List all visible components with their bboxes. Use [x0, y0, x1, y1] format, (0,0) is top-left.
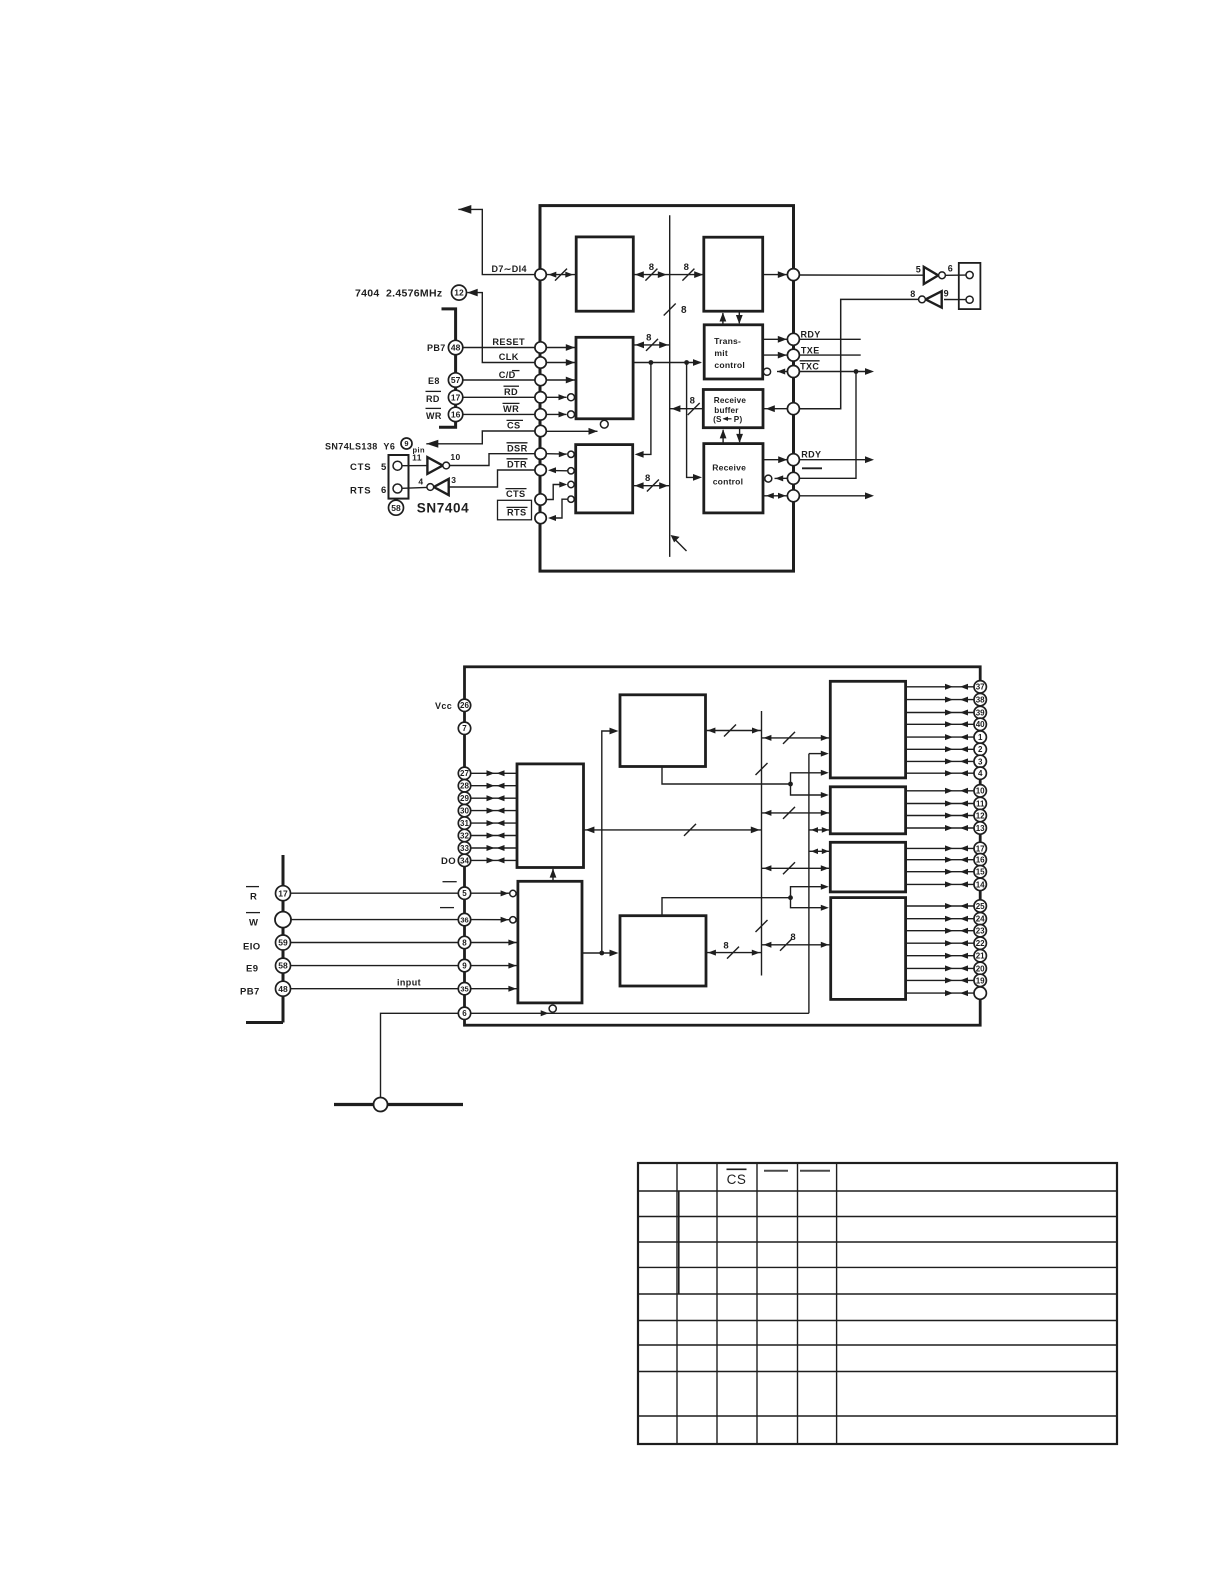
wire RESET into R/W control	[546, 344, 576, 351]
wire: internal bus to transmit buffer	[670, 262, 704, 281]
wire bus1 to register file C	[762, 862, 831, 874]
wire counter branch	[662, 895, 793, 915]
svg-text:22: 22	[976, 939, 985, 948]
svg-text:19: 19	[976, 976, 985, 985]
svg-text:8: 8	[462, 938, 467, 947]
block: timing generator	[620, 695, 706, 767]
wire receive buffer/control up	[720, 429, 727, 443]
svg-text:33: 33	[460, 844, 469, 853]
svg-text:9: 9	[462, 961, 467, 970]
svg-text:40: 40	[976, 720, 985, 729]
svg-text:RESET: RESET	[492, 337, 525, 347]
svg-text:RTS: RTS	[350, 486, 371, 497]
svg-text:8: 8	[649, 262, 655, 273]
pin 8	[458, 936, 470, 948]
block: register file C	[830, 842, 905, 892]
svg-text:input: input	[397, 978, 421, 988]
wire pin5 into control logic	[471, 890, 516, 896]
internal data bus	[669, 215, 671, 557]
node E9 pin 58	[276, 958, 291, 973]
wire C/D into R/W control	[546, 377, 576, 384]
block: data bus buffer	[576, 237, 633, 311]
wire RTS out of modem control	[548, 496, 574, 521]
svg-text:DO: DO	[441, 856, 456, 867]
svg-text:27: 27	[460, 769, 469, 778]
wire timing bus 1	[756, 711, 768, 976]
node 58	[389, 500, 404, 515]
label WR pin	[503, 403, 520, 414]
svg-text:PB7: PB7	[240, 986, 260, 997]
pin CTS	[535, 494, 546, 505]
connector J2 serial	[959, 263, 981, 309]
svg-text:8: 8	[681, 305, 687, 316]
svg-text:25: 25	[976, 902, 985, 911]
svg-text:17: 17	[278, 888, 288, 898]
pin D1 number 28	[458, 780, 517, 792]
wire timing generator output	[706, 725, 762, 737]
node ground junction	[334, 1098, 463, 1112]
wire CS into R/W control	[546, 420, 608, 434]
label RDY	[801, 329, 821, 339]
svg-text:8: 8	[690, 395, 696, 406]
pin D6 number 33	[458, 842, 517, 854]
wire clock branch to modem control	[635, 363, 651, 458]
pin CLK	[535, 357, 546, 368]
svg-text:8: 8	[910, 289, 915, 299]
label CTS pin	[506, 489, 527, 500]
inverter U3b pins 8/9	[910, 288, 949, 307]
svg-text:12: 12	[454, 288, 464, 298]
block: receive buffer (S-P)	[703, 390, 763, 428]
bus width slash 8 on internal bus	[664, 304, 687, 317]
label DO	[441, 856, 456, 867]
svg-text:10: 10	[450, 452, 460, 462]
wire TXC into transmit control	[763, 368, 787, 375]
svg-text:Receive: Receive	[714, 396, 747, 405]
pin WR	[535, 409, 546, 420]
label input	[397, 978, 421, 988]
svg-text:1: 1	[978, 733, 983, 742]
wire CTS into modem control	[546, 481, 574, 499]
wire inverter 6 to connector	[945, 274, 966, 276]
label CS pin	[507, 420, 524, 430]
svg-text:R: R	[250, 892, 257, 903]
label 5	[381, 462, 387, 473]
pin out 21	[906, 950, 987, 962]
wire SYNDET bidirectional	[764, 493, 788, 499]
label TXC	[800, 361, 820, 372]
svg-text:RDY: RDY	[801, 329, 821, 339]
annotation arrow to internal bus	[671, 535, 687, 551]
pin out 37	[906, 681, 987, 693]
svg-text:DTR: DTR	[507, 459, 527, 469]
wire: D bus pin to data bus buffer	[546, 269, 576, 281]
svg-text:SN74LS138 Y6: SN74LS138 Y6	[325, 442, 395, 452]
wire branch to register file A	[791, 770, 829, 784]
pin out 19	[906, 974, 987, 986]
wire PB7 to pin 35	[291, 988, 459, 990]
wire branch to register file C	[791, 884, 829, 898]
label EIO	[243, 941, 261, 952]
pin Vcc 26	[458, 699, 470, 711]
node R pin 17	[276, 886, 291, 901]
wire TxEMPTY	[763, 352, 787, 359]
label overline above pin5	[443, 881, 457, 883]
label RESET	[492, 337, 525, 347]
pin out 24	[906, 913, 987, 925]
svg-text:P): P)	[734, 415, 743, 424]
pin 35	[458, 983, 470, 995]
pin out 25	[906, 900, 987, 912]
wire pin6 clock line	[471, 1005, 809, 1016]
wire bus1 to register file A	[762, 732, 831, 744]
block: register file A	[830, 681, 905, 778]
pin out 11	[906, 797, 987, 809]
block: receive control	[704, 444, 763, 513]
svg-text:DSR: DSR	[507, 443, 528, 453]
svg-text:8: 8	[790, 932, 796, 943]
svg-text:28: 28	[460, 782, 469, 791]
pin TXC	[787, 366, 799, 378]
node EIO pin 59	[276, 935, 291, 950]
wire pin9 into control logic	[471, 963, 518, 969]
label blank overline	[802, 467, 822, 469]
wire pin6 to ground junction	[381, 1013, 459, 1097]
svg-text:SN7404: SN7404	[417, 501, 469, 516]
wire inverter 4 to RTS connector	[402, 486, 427, 489]
pin TxRDY	[787, 333, 799, 345]
svg-text:26: 26	[460, 701, 469, 710]
svg-text:D7∼DI4: D7∼DI4	[492, 264, 527, 274]
label E9	[246, 963, 258, 974]
wire transmit buffer/control down	[736, 311, 743, 324]
pin 5	[458, 887, 470, 899]
pin out 14	[906, 878, 987, 890]
svg-text:32: 32	[460, 831, 469, 840]
svg-text:29: 29	[460, 794, 469, 803]
inverter U3a pins 5/6	[916, 264, 953, 284]
wire receive buffer to internal bus	[670, 395, 704, 415]
svg-text:8: 8	[646, 332, 652, 343]
svg-text:17: 17	[976, 844, 985, 853]
label R external	[246, 887, 259, 903]
svg-text:16: 16	[976, 856, 985, 865]
svg-text:16: 16	[451, 409, 461, 419]
pin out 22	[906, 937, 987, 949]
wire RxC into receive control	[765, 475, 788, 482]
wire bus2 to register file B	[809, 827, 830, 833]
wire: clock to CLK pin	[467, 289, 535, 363]
node clock source pin 12	[452, 285, 467, 300]
inverter U2b pins 4/3	[418, 475, 456, 495]
pin D7~DI4	[535, 269, 546, 280]
pin RESET	[535, 342, 546, 353]
wire bus1 to register file D	[762, 932, 831, 951]
svg-text:24: 24	[976, 915, 985, 924]
wire RxRDY out	[799, 456, 874, 463]
pin RxD	[787, 403, 799, 415]
label RD pin	[504, 386, 520, 397]
svg-text:E9: E9	[246, 963, 258, 974]
svg-text:23: 23	[976, 927, 985, 936]
svg-text:CTS: CTS	[350, 462, 371, 473]
pin D5 number 32	[458, 829, 517, 841]
label 6	[381, 485, 387, 496]
svg-text:control: control	[713, 477, 744, 487]
pin out 2	[906, 743, 987, 755]
svg-text:21: 21	[976, 952, 985, 961]
wire timing bus 2	[809, 751, 829, 1014]
label RTS pin boxed	[498, 500, 532, 520]
label RD external	[426, 391, 442, 404]
label DSR	[507, 443, 528, 454]
wire bus interface to bus1	[584, 824, 762, 836]
block: register file D	[831, 898, 906, 1000]
wire EIO to pin 8	[291, 942, 459, 944]
svg-text:8: 8	[723, 940, 729, 951]
svg-text:14: 14	[976, 880, 985, 889]
wire CLK into R/W control	[546, 359, 576, 366]
wire bus2 to register file C	[809, 849, 830, 855]
pin D2 number 29	[458, 792, 517, 804]
wire pin35 into control logic	[471, 986, 518, 992]
pin out 40	[906, 718, 987, 730]
pin DTR	[535, 464, 546, 475]
wire TXC external	[799, 368, 874, 375]
pin 9	[458, 959, 470, 971]
wire control logic to counter	[582, 950, 619, 957]
block: modem control	[576, 445, 633, 513]
svg-text:3: 3	[451, 475, 456, 485]
pin DSR	[535, 448, 546, 459]
label SN74LS138 Y6	[325, 438, 425, 455]
wire timing generator branch	[662, 767, 793, 787]
svg-text:11: 11	[412, 452, 422, 462]
node W	[275, 912, 291, 928]
svg-text:13: 13	[976, 824, 985, 833]
node RD pin 17	[448, 390, 462, 404]
label PB7	[427, 343, 446, 353]
table: CS truth table grid	[638, 1163, 1117, 1444]
label E8	[428, 376, 440, 386]
label overline above pin36	[440, 907, 454, 909]
inverter U2a pins 11/10	[412, 452, 461, 474]
svg-text:EIO: EIO	[243, 941, 261, 952]
pin out 12	[906, 809, 987, 821]
wire: R/W control to internal bus	[633, 332, 670, 351]
wire transmit buffer/control up	[720, 313, 727, 325]
svg-text:Receive: Receive	[712, 463, 746, 473]
svg-text:5: 5	[381, 462, 387, 473]
wire TxD to inverter 5	[799, 274, 923, 276]
wire: modem control to internal bus	[633, 473, 670, 492]
block: transmit control	[704, 325, 763, 379]
rail: external reset bracket	[439, 309, 456, 427]
svg-text:RD: RD	[426, 394, 440, 404]
label C/D	[499, 370, 520, 380]
svg-text:30: 30	[460, 806, 469, 815]
label Vcc	[435, 701, 452, 711]
label D7~DI4	[492, 264, 527, 274]
pin out 39	[906, 706, 987, 718]
svg-text:6: 6	[462, 1009, 467, 1018]
svg-text:WR: WR	[503, 404, 519, 414]
svg-text:W: W	[249, 918, 258, 929]
label RDY receive	[801, 449, 821, 459]
svg-text:CS: CS	[507, 421, 521, 431]
pin D3 number 30	[458, 804, 517, 816]
svg-text:control: control	[714, 360, 745, 370]
label DTR	[507, 459, 528, 470]
pin 36	[458, 913, 470, 925]
wire WR into R/W control	[546, 411, 574, 418]
wire RxD from inverter 8	[799, 299, 918, 408]
wire DTR out of modem control	[548, 467, 574, 474]
wire connector to inverter 9	[944, 299, 966, 301]
svg-text:59: 59	[278, 938, 288, 948]
wire RxRDY	[764, 456, 788, 463]
pin out 10	[906, 785, 987, 797]
label 7404 2.4576MHz	[355, 288, 442, 300]
pin D4 number 31	[458, 817, 517, 829]
svg-text:WR: WR	[426, 411, 442, 421]
svg-text:8: 8	[684, 262, 690, 273]
svg-text:58: 58	[278, 961, 288, 971]
pin out 20	[906, 962, 987, 974]
label RTS	[350, 486, 371, 497]
label CLK	[499, 352, 519, 362]
svg-text:6: 6	[381, 485, 387, 496]
wire control to timing generator	[599, 728, 618, 956]
svg-text:11: 11	[976, 799, 985, 808]
pin out 3	[906, 755, 987, 767]
block: counter	[620, 916, 706, 986]
label SN7404	[417, 501, 469, 516]
svg-text:PB7: PB7	[427, 343, 446, 353]
svg-text:(S: (S	[713, 415, 722, 424]
svg-text:CS: CS	[727, 1172, 747, 1187]
wire CS from decoder	[426, 431, 535, 448]
label overline header col4	[764, 1170, 788, 1172]
IC U4 peripheral controller body	[465, 667, 981, 1025]
wire receive buffer/control down	[736, 428, 743, 443]
svg-text:39: 39	[976, 708, 985, 717]
wire DSR into modem control	[546, 451, 574, 457]
wire: data bus buffer to internal bus	[633, 262, 669, 281]
wire C/D	[463, 379, 535, 381]
svg-text:RTS: RTS	[507, 508, 527, 518]
svg-text:37: 37	[976, 683, 985, 692]
svg-text:7404 2.4576MHz: 7404 2.4576MHz	[355, 288, 442, 300]
IC U1 8251-type USART body	[540, 206, 794, 571]
rail: external bus bracket	[246, 855, 283, 1023]
node PB7 pin 48	[276, 981, 291, 996]
pin RTS	[535, 512, 546, 523]
wire TXC to RxC	[799, 372, 856, 479]
svg-text:5: 5	[462, 889, 467, 898]
svg-text:RD: RD	[504, 387, 518, 397]
pin out 13	[906, 822, 987, 834]
svg-text:48: 48	[451, 343, 461, 353]
label CS header	[727, 1169, 747, 1187]
wire CLK distribution	[633, 359, 702, 366]
pin CS	[535, 425, 546, 436]
pin RxRDY	[787, 454, 799, 466]
wire: data bus to system (top-left arrow)	[458, 205, 535, 275]
svg-text:9: 9	[404, 439, 408, 448]
svg-text:17: 17	[451, 392, 461, 402]
pin D7 number 34	[458, 854, 517, 866]
wire RD into R/W control	[546, 394, 574, 401]
wire pin36 into control logic	[471, 917, 516, 923]
label WR external	[426, 408, 442, 421]
wire TxRDY	[763, 336, 787, 343]
wire clock branch to receive control	[687, 363, 702, 481]
wire branch to register file D	[791, 898, 829, 911]
svg-text:9: 9	[944, 288, 949, 298]
pin C/D	[535, 374, 546, 385]
wire RD	[463, 396, 535, 398]
wire W to pin 36	[291, 919, 458, 921]
pin TxE	[787, 349, 799, 361]
block: register file B	[830, 787, 905, 834]
pin out 15	[906, 866, 987, 878]
svg-text:15: 15	[976, 868, 985, 877]
svg-text:6: 6	[948, 264, 953, 274]
svg-text:58: 58	[391, 503, 401, 513]
svg-text:36: 36	[460, 915, 468, 924]
wire CTS to inverter	[402, 465, 427, 467]
pin out 17	[906, 842, 987, 854]
pin out blank	[906, 987, 987, 999]
svg-text:RDY: RDY	[801, 449, 821, 459]
svg-text:31: 31	[460, 819, 469, 828]
wire R to pin 5	[291, 892, 459, 894]
svg-text:38: 38	[976, 695, 985, 704]
pin 6	[458, 1007, 470, 1019]
pin RD	[535, 392, 546, 403]
svg-text:TXC: TXC	[800, 361, 819, 371]
svg-text:4: 4	[418, 476, 423, 486]
wire counter to bus1	[706, 940, 762, 958]
pin out 4	[906, 767, 987, 779]
wire SYNDET out	[799, 492, 874, 499]
label W external	[246, 913, 260, 929]
wire TxRDY out	[799, 338, 860, 340]
svg-text:57: 57	[451, 375, 461, 385]
wire transmit buffer to TxD pin	[763, 271, 788, 278]
svg-text:CTS: CTS	[506, 489, 526, 499]
connector J1 CTS/RTS	[389, 455, 409, 499]
svg-text:C/D: C/D	[499, 370, 516, 380]
svg-text:2: 2	[978, 745, 983, 754]
wire branch to register file B	[791, 784, 829, 798]
wire inverter 10 to DSR	[450, 454, 535, 466]
pin out 23	[906, 925, 987, 937]
svg-text:Trans-: Trans-	[714, 336, 741, 346]
wire DTR to RTS inverter	[449, 470, 535, 487]
pin SYNDET	[787, 490, 799, 502]
node WR pin 16	[448, 407, 462, 421]
wire TXE out	[799, 354, 860, 356]
wire RxD into receive buffer	[764, 405, 787, 412]
wire bus interface to control logic	[550, 869, 557, 882]
wire RESET	[463, 347, 535, 349]
label overline header col5	[800, 1170, 830, 1172]
wire WR	[463, 413, 535, 415]
pin TxD	[787, 269, 799, 281]
node E8 pin 57	[448, 373, 462, 387]
